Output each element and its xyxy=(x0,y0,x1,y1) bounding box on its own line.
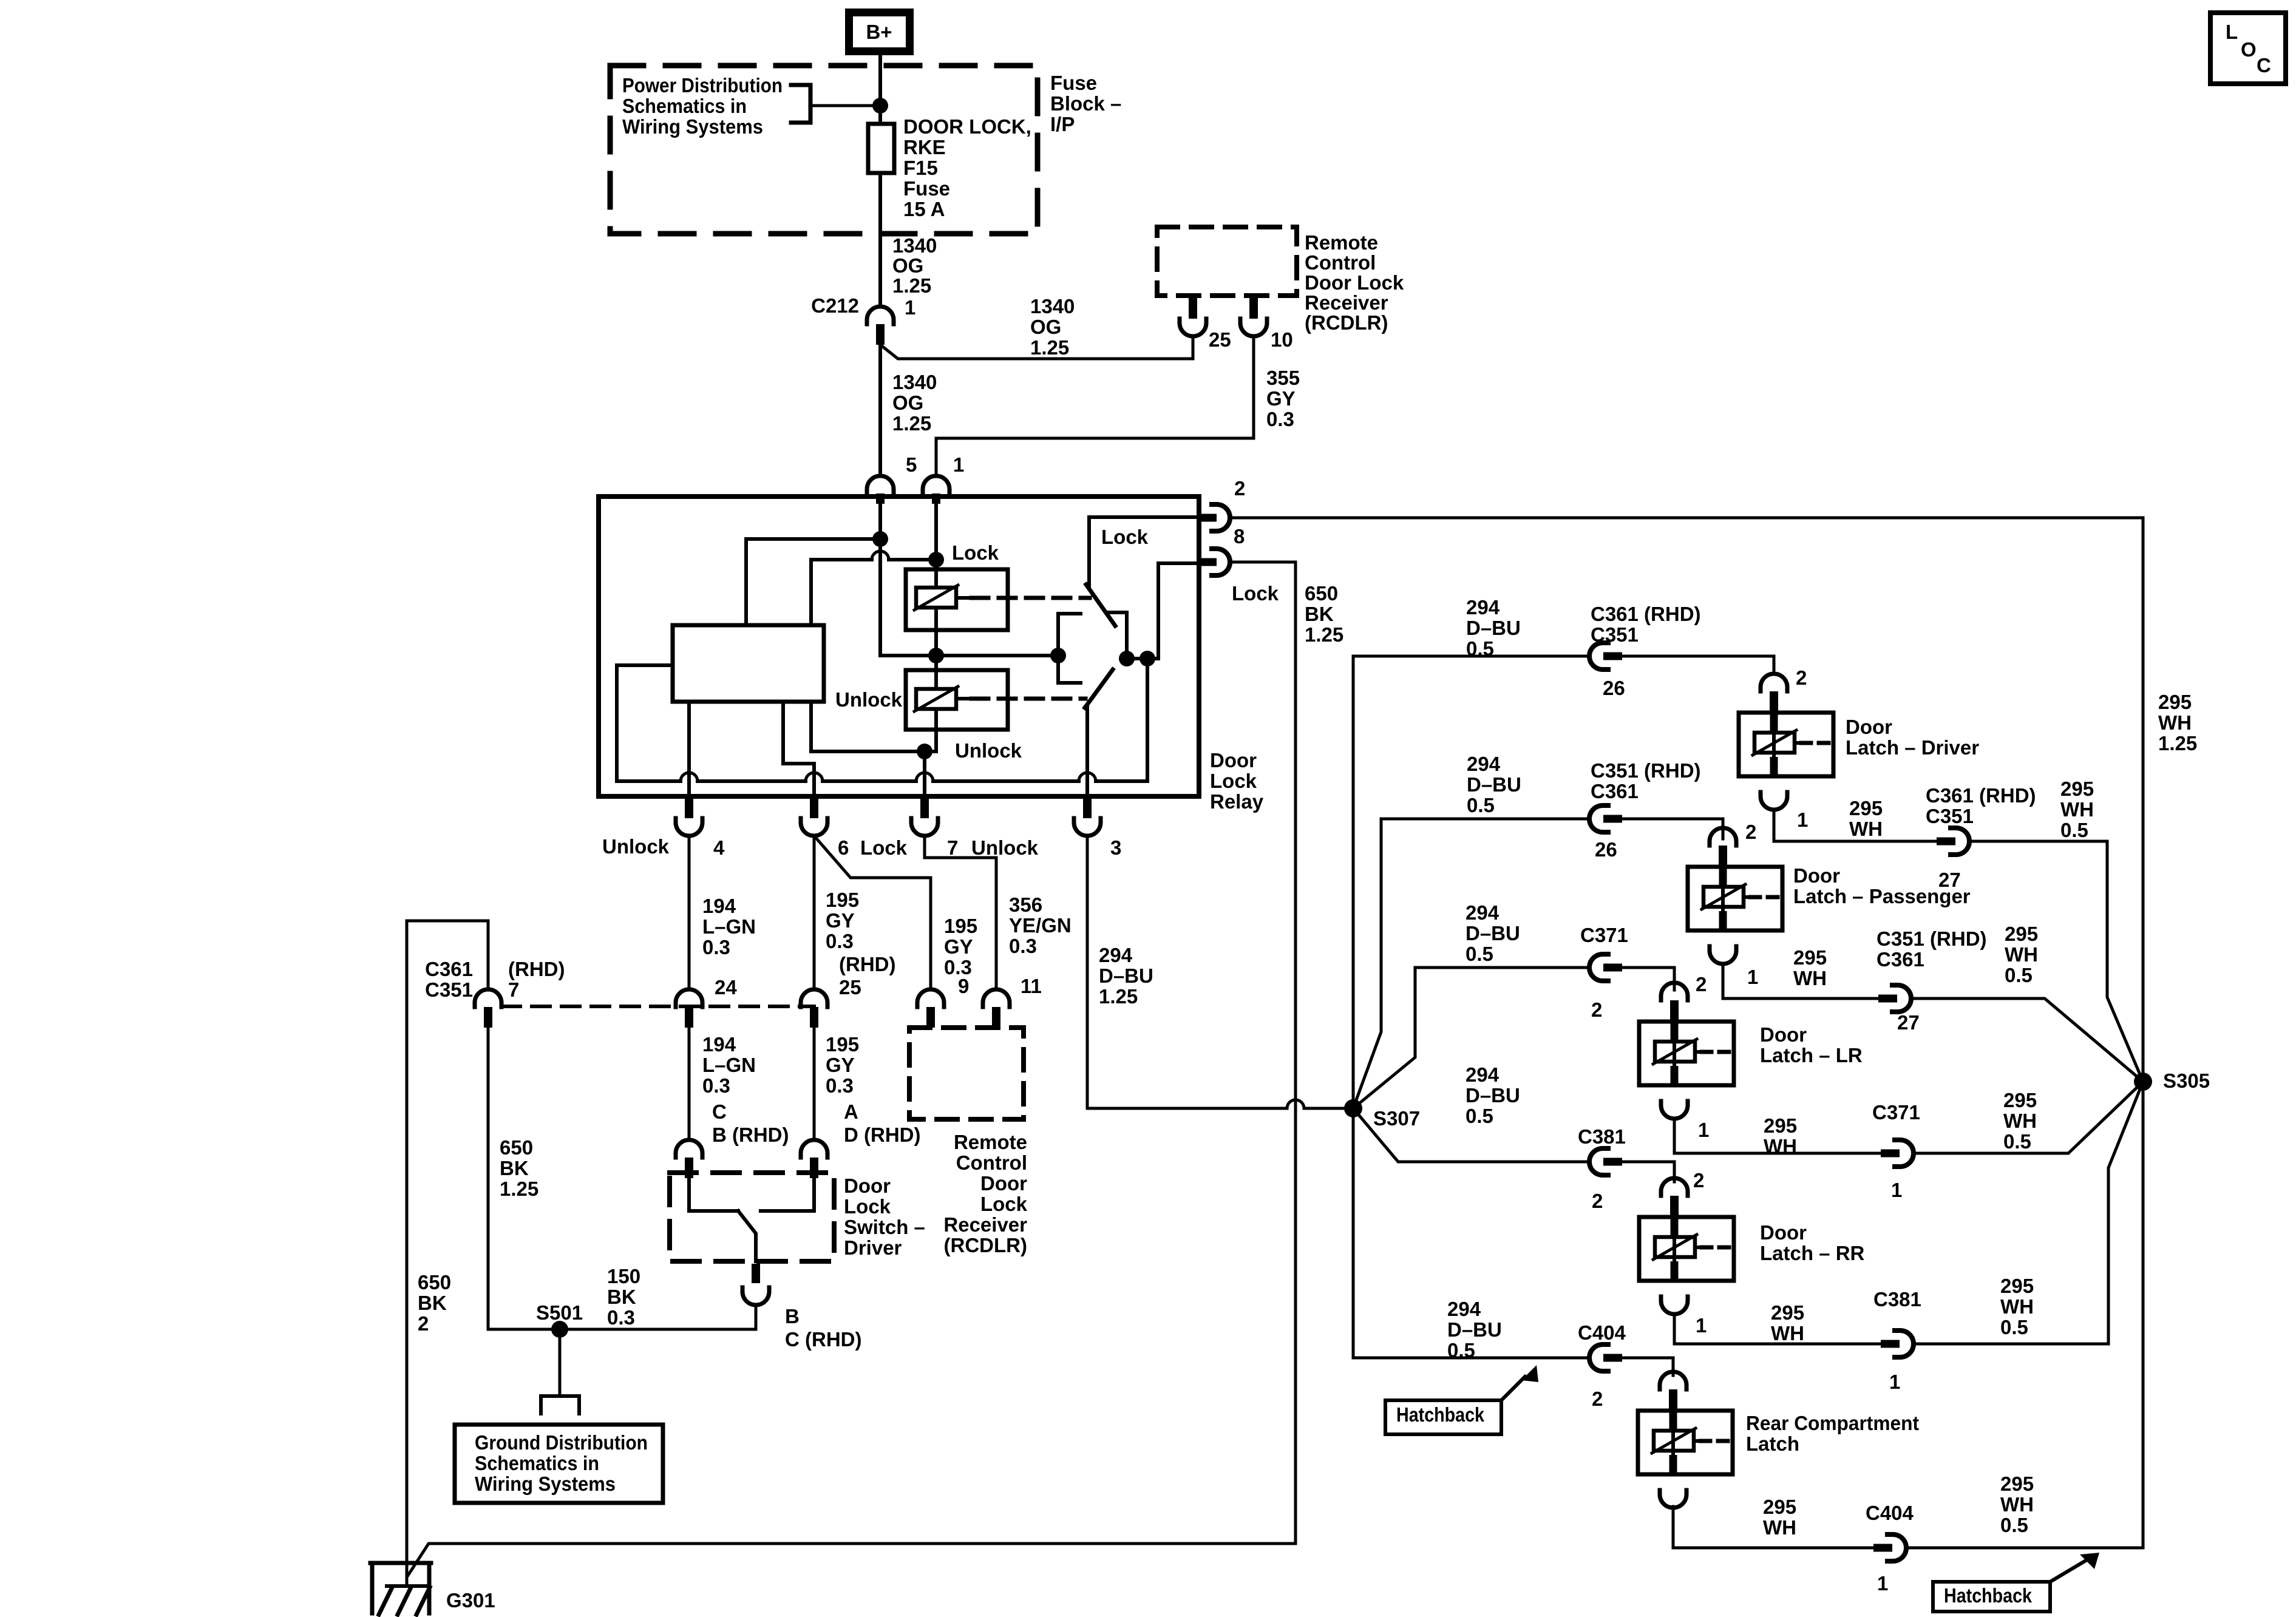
wire lock coil inner stub xyxy=(960,596,971,600)
svg-text:650: 650 xyxy=(500,1136,533,1159)
wire pin6 to connector 25 xyxy=(813,836,816,989)
label 295 WH rear xyxy=(1763,1496,1796,1539)
internal ground bus xyxy=(617,779,1147,783)
label C404 return xyxy=(1866,1502,1914,1524)
label pin 2 LR latch xyxy=(1696,973,1707,995)
svg-text:WH: WH xyxy=(2158,711,2192,734)
svg-text:Lock: Lock xyxy=(1101,526,1149,548)
wire control box feed A xyxy=(746,539,880,625)
svg-text:0.5: 0.5 xyxy=(1467,794,1495,816)
svg-text:Lock: Lock xyxy=(844,1195,891,1218)
label Door Latch LR xyxy=(1760,1023,1863,1066)
svg-text:O: O xyxy=(2241,38,2257,61)
svg-text:Hatchback: Hatchback xyxy=(1944,1584,2033,1607)
hatchback arrow 2 xyxy=(2050,1553,2099,1582)
svg-text:194: 194 xyxy=(702,1033,736,1056)
svg-text:WH: WH xyxy=(2005,943,2038,966)
hop bus over pin7 wire xyxy=(916,773,933,781)
label pin C xyxy=(712,1100,727,1123)
connector relay pin 3 xyxy=(1074,798,1101,836)
svg-text:1: 1 xyxy=(1877,1572,1888,1595)
relay coil Unlock box xyxy=(906,670,1008,730)
label Ground Distribution xyxy=(475,1431,648,1495)
connector relay pin 6 xyxy=(801,798,827,836)
label pin 1 passenger latch xyxy=(1747,966,1758,988)
svg-text:0.5: 0.5 xyxy=(2000,1316,2028,1338)
junction dot fuse feed xyxy=(872,98,888,114)
switch pivot bracket xyxy=(1058,614,1081,683)
label 194 L-GN 0.3 lower xyxy=(702,1033,756,1097)
wire S307 to LR feed xyxy=(1353,968,1589,1108)
wire pin3 fixed contact xyxy=(1085,705,1089,796)
svg-text:295: 295 xyxy=(2003,1089,2037,1111)
rear compartment latch connector 1 xyxy=(1660,1490,1686,1508)
label Door Lock Switch Driver xyxy=(844,1175,925,1259)
door latch RR wire through xyxy=(1671,1204,1679,1280)
junction dot common a xyxy=(1119,651,1135,666)
relay coil Unlock element xyxy=(914,686,958,711)
wire pin2 fixed contact xyxy=(1089,517,1199,586)
connector C404 return xyxy=(1873,1534,1906,1561)
connector relay pin 5 xyxy=(867,476,894,504)
label pin 6 xyxy=(838,836,849,859)
relay coil Lock element xyxy=(914,585,958,610)
svg-text:25: 25 xyxy=(839,976,861,998)
label pin B RHD xyxy=(712,1124,789,1146)
label 295 WH 0.5 passenger xyxy=(2005,923,2038,986)
label 650 BK 1.25 left xyxy=(500,1136,538,1200)
connector C371 feed xyxy=(1589,954,1622,981)
wire RCDLR pin10 to relay pin1 xyxy=(936,336,1254,476)
svg-text:Switch –: Switch – xyxy=(844,1216,925,1238)
svg-text:1: 1 xyxy=(1891,1179,1902,1201)
label pin 1 relay xyxy=(953,453,964,476)
label pin 27 passenger xyxy=(1897,1011,1920,1034)
svg-text:Power Distribution: Power Distribution xyxy=(622,74,783,97)
svg-text:I/P: I/P xyxy=(1050,113,1075,135)
svg-text:Control: Control xyxy=(1305,251,1376,274)
label pin 2 xyxy=(1234,477,1245,500)
label C381 feed xyxy=(1578,1125,1626,1148)
wire pin8 lock output xyxy=(1230,562,1296,1544)
wire driver return to S305 xyxy=(1969,841,2143,1082)
svg-text:Remote: Remote xyxy=(954,1131,1027,1153)
svg-text:Door Lock: Door Lock xyxy=(1305,271,1404,294)
label Door Latch Driver xyxy=(1846,716,1979,759)
svg-text:294: 294 xyxy=(1447,1298,1481,1320)
door latch LR box xyxy=(1639,1022,1734,1085)
svg-text:1.25: 1.25 xyxy=(500,1178,538,1200)
svg-text:WH: WH xyxy=(1763,1516,1796,1539)
svg-text:S305: S305 xyxy=(2163,1070,2210,1092)
junction dot internal B+ xyxy=(872,531,888,547)
label pin 26 driver xyxy=(1603,677,1625,699)
label RHD pin6 xyxy=(839,953,895,975)
connector relay pin 8 xyxy=(1199,549,1230,575)
label C361 RHD C351 driver xyxy=(1591,603,1701,646)
label pin 1 C381 xyxy=(1889,1371,1900,1393)
wire passenger latch return xyxy=(1723,964,1878,998)
label pin 25 xyxy=(1209,328,1231,351)
wire pin2 lock rail xyxy=(1230,518,2143,1548)
door lock switch driver dashed box xyxy=(670,1173,834,1261)
connector relay pin 7 xyxy=(911,798,938,836)
label Door Latch RR xyxy=(1760,1221,1865,1264)
svg-text:Door: Door xyxy=(1760,1023,1807,1046)
svg-text:7: 7 xyxy=(947,836,958,859)
wire hatch loop bottom xyxy=(407,1544,1296,1576)
wire pin7 to RCDLR11 xyxy=(925,836,996,989)
svg-text:WH: WH xyxy=(2000,1295,2034,1318)
svg-text:1.25: 1.25 xyxy=(892,274,931,297)
label S307 xyxy=(1373,1107,1420,1130)
svg-text:DOOR LOCK,: DOOR LOCK, xyxy=(903,115,1031,138)
label S305 xyxy=(2163,1070,2210,1092)
svg-text:1: 1 xyxy=(1698,1119,1709,1141)
svg-text:Door: Door xyxy=(1793,864,1840,887)
connector C381 return xyxy=(1881,1331,1914,1357)
label pin 2 RR latch xyxy=(1693,1169,1704,1192)
svg-text:(RHD): (RHD) xyxy=(839,953,895,975)
svg-text:26: 26 xyxy=(1603,677,1625,699)
label Unlock pin4 xyxy=(602,835,670,858)
door latch passenger wire through xyxy=(1719,854,1727,929)
wire S307 to driver feed xyxy=(1353,656,1589,1108)
svg-text:S501: S501 xyxy=(536,1301,583,1324)
wire S307 to rear feed xyxy=(1353,1108,1589,1358)
svg-text:C212: C212 xyxy=(811,294,859,317)
svg-text:650: 650 xyxy=(1305,582,1338,605)
svg-text:195: 195 xyxy=(826,1033,859,1056)
svg-text:OG: OG xyxy=(1030,316,1061,338)
svg-text:2: 2 xyxy=(1796,666,1807,689)
dashed RHD connector line xyxy=(502,1005,814,1008)
svg-text:7: 7 xyxy=(508,978,519,1001)
connector relay pin 1 xyxy=(923,476,949,504)
svg-text:2: 2 xyxy=(1234,477,1245,500)
svg-text:295: 295 xyxy=(2060,778,2094,800)
LOC legend box xyxy=(2210,13,2286,84)
fuse block I/P dashed box xyxy=(610,66,1038,234)
wire passenger return to S305 xyxy=(1911,998,2143,1082)
rear compartment latch wire through xyxy=(1669,1398,1677,1473)
wire pin6 branch to RCDLR9 xyxy=(814,836,931,989)
label 150 BK 0.3 xyxy=(607,1265,640,1329)
label C351 RHD C361 passenger xyxy=(1591,759,1701,802)
svg-text:Latch – Driver: Latch – Driver xyxy=(1846,736,1979,759)
label 294 D-BU 1.25 xyxy=(1099,944,1153,1008)
svg-text:Wiring Systems: Wiring Systems xyxy=(622,115,763,138)
svg-text:OG: OG xyxy=(892,254,923,277)
label pin 25 mid xyxy=(839,976,861,998)
svg-text:WH: WH xyxy=(2060,798,2094,821)
svg-text:OG: OG xyxy=(892,392,923,414)
label C371 feed xyxy=(1580,924,1628,946)
label 1340 OG 1.25 to RCDLR xyxy=(1030,295,1075,359)
svg-text:WH: WH xyxy=(1764,1135,1797,1158)
svg-text:GY: GY xyxy=(1266,387,1296,410)
svg-text:Relay: Relay xyxy=(1210,790,1264,813)
connector C404 feed xyxy=(1589,1344,1622,1371)
label Fuse Block I/P xyxy=(1050,72,1121,135)
svg-text:D–BU: D–BU xyxy=(1466,1084,1520,1107)
fuse F15 15A xyxy=(868,124,894,173)
wire C361 pin7 up xyxy=(487,921,490,989)
connector C351 RHD C361 27 passenger xyxy=(1878,985,1911,1012)
door lock relay box xyxy=(599,497,1199,796)
svg-text:0.5: 0.5 xyxy=(1466,943,1493,965)
door latch passenger connector 2 xyxy=(1710,828,1736,866)
svg-text:Lock: Lock xyxy=(980,1193,1028,1215)
label 195 GY 0.3 pin9 xyxy=(944,915,977,978)
wire passenger feed to latch xyxy=(1622,819,1723,839)
svg-text:Door: Door xyxy=(844,1175,891,1197)
svg-text:RKE: RKE xyxy=(903,136,946,158)
svg-text:295: 295 xyxy=(2000,1275,2034,1297)
label 294 D-BU 0.5 rear xyxy=(1447,1298,1502,1361)
svg-text:C371: C371 xyxy=(1872,1101,1920,1124)
svg-text:Latch – Passenger: Latch – Passenger xyxy=(1793,885,1971,907)
svg-text:2: 2 xyxy=(1693,1169,1704,1192)
label pin 9 xyxy=(958,975,969,997)
connector RCDLR pin 9 xyxy=(917,989,944,1028)
svg-text:1340: 1340 xyxy=(892,234,937,257)
svg-text:356: 356 xyxy=(1009,893,1042,916)
label pin 2 C371 xyxy=(1591,998,1602,1021)
svg-text:294: 294 xyxy=(1466,596,1500,619)
svg-text:1340: 1340 xyxy=(1030,295,1075,317)
label pin 1 driver latch xyxy=(1797,808,1808,831)
svg-text:650: 650 xyxy=(418,1271,451,1293)
door latch driver connector 2 xyxy=(1761,674,1787,712)
svg-text:C: C xyxy=(712,1100,727,1123)
door latch RR connector 2 xyxy=(1661,1178,1688,1216)
svg-text:Lock: Lock xyxy=(952,541,999,564)
wire S307 to passenger feed xyxy=(1353,819,1589,1108)
label Power Distribution reference xyxy=(622,74,783,138)
svg-text:5: 5 xyxy=(906,453,917,476)
svg-text:Unlock: Unlock xyxy=(955,739,1022,762)
svg-text:Wiring Systems: Wiring Systems xyxy=(475,1473,616,1495)
label Unlock below coil xyxy=(955,739,1022,762)
label C371 return xyxy=(1872,1101,1920,1124)
label 294 D-BU 0.5 driver xyxy=(1466,596,1521,660)
wire LR return to S305 xyxy=(1914,1082,2143,1153)
wire ground rail top xyxy=(407,921,488,1586)
rear compartment latch coil xyxy=(1652,1428,1730,1453)
label 194 L-GN 0.3 pin4 xyxy=(702,895,756,958)
svg-text:Rear Compartment: Rear Compartment xyxy=(1746,1412,1919,1434)
label pin 1 C371 xyxy=(1891,1179,1902,1201)
wire pin6 internal xyxy=(783,702,814,796)
svg-text:0.5: 0.5 xyxy=(2060,819,2088,841)
svg-text:9: 9 xyxy=(958,975,969,997)
svg-text:C351: C351 xyxy=(425,978,473,1001)
label 295 WH driver xyxy=(1849,797,1883,840)
svg-text:1.25: 1.25 xyxy=(1099,985,1138,1008)
wire driver feed to latch xyxy=(1622,656,1774,674)
svg-text:WH: WH xyxy=(1793,967,1827,989)
junction dot pin7 unlock xyxy=(917,744,932,759)
linkage lock coil to switch xyxy=(971,596,1090,600)
wire C361 pin7 down xyxy=(487,1028,490,1329)
svg-text:150: 150 xyxy=(607,1265,640,1287)
rear compartment latch connector 2 xyxy=(1660,1372,1686,1410)
label pin B xyxy=(785,1305,800,1327)
label 295 WH RR xyxy=(1771,1301,1804,1344)
svg-text:1.25: 1.25 xyxy=(1305,623,1343,646)
svg-text:24: 24 xyxy=(715,976,737,998)
svg-text:6: 6 xyxy=(838,836,849,859)
wire switch common mid xyxy=(880,654,1058,657)
junction dot pin1 coil feed xyxy=(928,552,944,568)
svg-text:C361 (RHD): C361 (RHD) xyxy=(1926,784,2036,807)
hatchback callout box 1 xyxy=(1385,1400,1501,1434)
svg-text:A: A xyxy=(844,1100,858,1123)
svg-text:Hatchback: Hatchback xyxy=(1396,1403,1485,1426)
connector relay pin 2 xyxy=(1199,504,1230,531)
svg-text:27: 27 xyxy=(1897,1011,1920,1034)
svg-text:0.5: 0.5 xyxy=(2000,1514,2028,1536)
label DOOR LOCK RKE F15 Fuse 15A xyxy=(903,115,1031,220)
svg-text:Schematics in: Schematics in xyxy=(622,95,747,117)
svg-text:0.3: 0.3 xyxy=(607,1306,635,1329)
svg-text:F15: F15 xyxy=(903,157,938,179)
connector C361 RHD C351 27 driver xyxy=(1937,828,1969,855)
RCDLR dashed box top xyxy=(1157,227,1297,296)
label C404 feed xyxy=(1578,1321,1626,1344)
label pin 8 xyxy=(1234,525,1245,547)
label pin 7 xyxy=(947,836,958,859)
connector switch pin C xyxy=(676,1140,702,1178)
connector C361 C351 pin 7 xyxy=(475,989,501,1028)
svg-text:294: 294 xyxy=(1467,753,1501,775)
svg-text:Driver: Driver xyxy=(844,1236,902,1259)
label C361 RHD C351 return driver xyxy=(1926,784,2036,827)
label pin 2 driver latch xyxy=(1796,666,1807,689)
wire through unlock coil xyxy=(934,656,938,751)
label pin 1 LR latch xyxy=(1698,1119,1709,1141)
door latch passenger connector 1 xyxy=(1710,946,1736,964)
label Lock coil xyxy=(952,541,999,564)
svg-text:294: 294 xyxy=(1099,944,1133,966)
svg-text:4: 4 xyxy=(713,836,725,859)
wire branch C212 to RCDLR pin25 xyxy=(880,336,1193,359)
svg-text:C361: C361 xyxy=(1877,948,1924,971)
wire lock blade to common xyxy=(1109,612,1127,659)
label 1340 OG 1.25 lower xyxy=(892,371,937,435)
wire unlock coil link to control box xyxy=(809,702,813,751)
label 1340 OG 1.25 upper xyxy=(892,234,937,297)
svg-text:C381: C381 xyxy=(1873,1288,1921,1310)
label pin 1 RR latch xyxy=(1696,1314,1707,1337)
svg-text:D–BU: D–BU xyxy=(1099,964,1153,987)
ground G301 xyxy=(370,1563,431,1615)
svg-text:295: 295 xyxy=(2158,691,2192,713)
label pin 5 xyxy=(906,453,917,476)
door latch LR connector 1 xyxy=(1661,1101,1688,1119)
svg-text:L–GN: L–GN xyxy=(702,1054,756,1076)
svg-text:C361 (RHD): C361 (RHD) xyxy=(1591,603,1701,625)
svg-text:Unlock: Unlock xyxy=(602,835,670,858)
svg-text:C381: C381 xyxy=(1578,1125,1626,1148)
svg-text:G301: G301 xyxy=(446,1589,495,1612)
label pin 2 passenger latch xyxy=(1745,821,1756,843)
wire control box left loop xyxy=(617,665,673,781)
splice S501 xyxy=(551,1321,568,1338)
door latch RR coil xyxy=(1653,1235,1731,1259)
label pin 10 xyxy=(1271,328,1293,351)
label 294 D-BU 0.5 passenger xyxy=(1467,753,1521,816)
label 356 YE/GN 0.3 xyxy=(1009,893,1072,957)
svg-text:C404: C404 xyxy=(1866,1502,1914,1524)
svg-text:0.5: 0.5 xyxy=(1466,637,1494,660)
door latch LR coil xyxy=(1653,1039,1731,1064)
label 650 BK 1.25 pin8 xyxy=(1305,582,1343,646)
svg-text:Door: Door xyxy=(1846,716,1892,738)
svg-text:Fuse: Fuse xyxy=(1050,72,1097,94)
svg-text:1: 1 xyxy=(1747,966,1758,988)
label Unlock pin7 xyxy=(971,836,1039,859)
svg-text:0.5: 0.5 xyxy=(1447,1339,1475,1361)
internal control box xyxy=(673,625,824,702)
svg-text:Door: Door xyxy=(980,1172,1027,1195)
label pin 24 xyxy=(715,976,737,998)
svg-text:GY: GY xyxy=(826,1054,855,1076)
connector C361 RHD C351 26 driver xyxy=(1589,643,1622,670)
svg-text:1: 1 xyxy=(1696,1314,1707,1337)
wire driver latch return xyxy=(1774,810,1937,841)
label 195 GY 0.3 lower xyxy=(826,1033,859,1097)
svg-text:2: 2 xyxy=(1696,973,1707,995)
svg-text:Door: Door xyxy=(1760,1221,1807,1244)
wire unlock coil inner stub xyxy=(960,697,971,700)
wire B to S501 xyxy=(488,1305,756,1329)
label 294 D-BU 0.5 LR xyxy=(1466,901,1520,965)
svg-text:Unlock: Unlock xyxy=(971,836,1039,859)
svg-text:1: 1 xyxy=(905,296,915,319)
wire control box feed B xyxy=(811,560,936,625)
label 355 GY 0.3 xyxy=(1266,367,1300,430)
connector C212 xyxy=(867,307,894,345)
label 295 WH LR xyxy=(1764,1114,1797,1158)
label pin A xyxy=(844,1100,858,1123)
svg-text:295: 295 xyxy=(1763,1496,1796,1518)
svg-text:Fuse: Fuse xyxy=(903,177,950,200)
label Lock pin8 xyxy=(1232,582,1279,605)
label C361 C351 xyxy=(425,958,473,1001)
label C381 return xyxy=(1873,1288,1921,1310)
junction dot common b xyxy=(1140,651,1155,666)
wire C212 to relay pin5 xyxy=(878,333,882,476)
door latch LR wire through xyxy=(1671,1009,1679,1084)
svg-text:0.3: 0.3 xyxy=(1266,408,1294,430)
RCDLR dashed box bottom xyxy=(909,1028,1024,1119)
svg-text:BK: BK xyxy=(418,1292,447,1314)
door latch LR connector 2 xyxy=(1661,983,1688,1021)
wire RR latch return xyxy=(1674,1314,1881,1344)
label 295 WH 0.5 driver xyxy=(2060,778,2094,841)
wire S501 to ground ref xyxy=(559,1329,562,1396)
connector switch pin A xyxy=(801,1140,827,1178)
connector RCDLR pin 10 xyxy=(1240,298,1267,336)
svg-text:Receiver: Receiver xyxy=(1305,291,1388,314)
label C212 xyxy=(811,294,859,317)
junction dot mid common right xyxy=(1050,648,1066,663)
svg-text:2: 2 xyxy=(1591,998,1602,1021)
svg-text:1: 1 xyxy=(953,453,964,476)
svg-text:0.3: 0.3 xyxy=(1009,935,1037,957)
